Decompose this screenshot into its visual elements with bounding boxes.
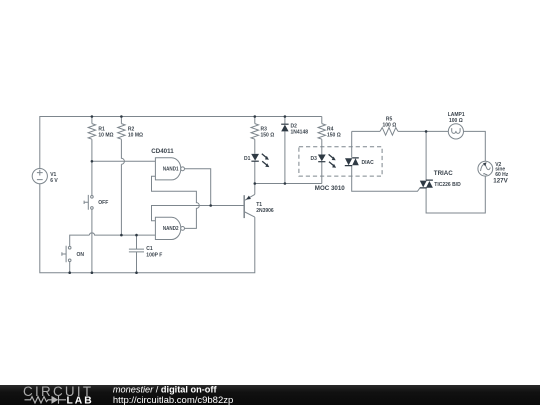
svg-text:C1: C1	[146, 246, 153, 252]
wire LED row rail	[255, 183, 322, 185]
transistor T1 body	[243, 195, 245, 218]
wire NAND1 output to node	[185, 169, 211, 206]
svg-text:R1: R1	[98, 126, 105, 132]
NAND gate NAND2	[155, 217, 180, 239]
svg-text:R4: R4	[327, 126, 334, 132]
wire ON bottom lead	[69, 262, 71, 273]
junction R2 top rail	[120, 115, 123, 118]
junction D2 top rail	[284, 115, 287, 118]
wire lamp to V2	[464, 131, 486, 161]
svg-text:TIC226 B/D: TIC226 B/D	[434, 182, 461, 188]
svg-text:100P F: 100P F	[146, 253, 162, 259]
transistor T1 emitter arrow	[246, 196, 251, 200]
wire NAND2 upper input loop	[152, 206, 245, 221]
wire V2 bottom loop	[426, 176, 485, 213]
wire R1 bottom to NAND1 input	[92, 160, 155, 162]
svg-text:CD4011: CD4011	[151, 148, 174, 155]
svg-text:150 Ω: 150 Ω	[327, 133, 341, 139]
NAND gate NAND1	[155, 158, 180, 180]
resistor R5	[380, 128, 398, 136]
svg-text:R2: R2	[128, 126, 135, 132]
wire D2 vertical	[284, 117, 286, 184]
svg-text:127V: 127V	[493, 177, 508, 184]
pushbutton ON	[68, 246, 71, 249]
junction R2 bottom mid rail	[120, 234, 123, 237]
svg-text:monestier / digital on-off: monestier / digital on-off	[113, 384, 218, 394]
svg-text:ON: ON	[77, 252, 85, 258]
resistor R2	[118, 124, 125, 140]
junction R1 bottom node	[91, 160, 94, 163]
lamp LAMP1	[448, 124, 463, 139]
svg-text:LAB: LAB	[67, 396, 94, 405]
resistor R3	[251, 124, 258, 140]
junction C1 top mid rail	[135, 234, 138, 237]
junction OFF bottom rail	[91, 271, 94, 274]
junction TRIAC top node	[425, 130, 428, 133]
svg-text:R3: R3	[261, 126, 268, 132]
svg-text:6 V: 6 V	[50, 178, 58, 184]
wire R1 branch vertical	[91, 117, 93, 273]
pushbutton OFF	[91, 196, 94, 199]
wire R5 row	[352, 130, 449, 132]
wire mid rail with hop	[70, 233, 156, 246]
svg-text:http://circuitlab.com/c9b82zp: http://circuitlab.com/c9b82zp	[113, 395, 233, 405]
wire triac top	[425, 131, 427, 180]
svg-text:10 MΩ: 10 MΩ	[128, 133, 143, 139]
diode D2 symbol	[281, 125, 288, 132]
wire feedback NAND1 lower input loop	[152, 176, 200, 228]
logo resistor-diode squiggle	[25, 396, 67, 404]
wire top rail	[40, 117, 322, 169]
svg-text:1N4148: 1N4148	[291, 130, 309, 136]
resistor R4	[318, 124, 325, 140]
wire D1 R3 branch vertical	[254, 117, 256, 195]
svg-text:NAND1: NAND1	[163, 167, 179, 173]
source V2	[478, 161, 493, 176]
svg-text:10 MΩ: 10 MΩ	[98, 133, 113, 139]
DIAC symbol	[345, 158, 352, 165]
junction NAND1 output node	[209, 204, 212, 207]
capacitor C1	[129, 249, 144, 252]
TRIAC symbol	[420, 181, 427, 188]
svg-text:MOC 3010: MOC 3010	[315, 185, 345, 192]
svg-text:TRIAC: TRIAC	[434, 170, 453, 177]
wire C1 leads	[136, 235, 138, 273]
svg-text:2N3906: 2N3906	[256, 208, 274, 214]
junction R3 top rail	[254, 115, 257, 118]
wire DIAC branch	[352, 131, 420, 191]
LED D1 symbol	[251, 154, 259, 161]
wire R2 vertical with hop	[121, 117, 124, 236]
resistor R1	[88, 124, 95, 140]
svg-text:DIAC: DIAC	[362, 160, 375, 166]
svg-text:150 Ω: 150 Ω	[261, 133, 275, 139]
svg-text:D3: D3	[311, 156, 318, 162]
svg-text:NAND2: NAND2	[163, 226, 179, 232]
svg-text:OFF: OFF	[98, 200, 108, 206]
svg-text:100 Ω: 100 Ω	[449, 118, 463, 124]
source V1	[32, 169, 47, 184]
LED D3 symbol	[318, 155, 326, 162]
wire left rail bottom	[40, 184, 255, 273]
MOC 3010 dashed box	[299, 147, 382, 176]
junction R1 top rail	[91, 115, 94, 118]
wire R4 D3 branch vertical	[321, 117, 323, 184]
junction D2 bottom node	[284, 182, 287, 185]
junction D1 bottom node	[254, 182, 257, 185]
svg-text:D1: D1	[244, 156, 251, 162]
footer bar	[0, 384, 540, 405]
junction C1 bottom rail	[135, 271, 138, 274]
junction ON bottom rail	[68, 271, 71, 274]
svg-text:100 Ω: 100 Ω	[383, 122, 397, 128]
